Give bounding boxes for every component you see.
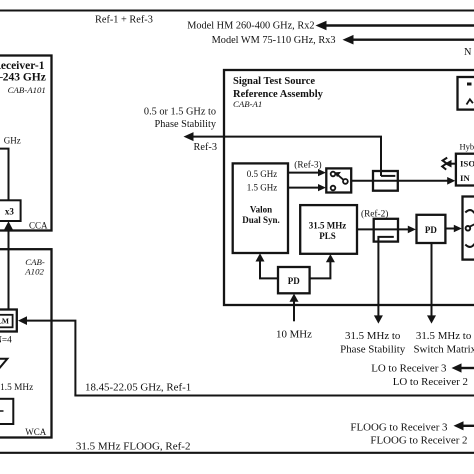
svg-text:31.5 MHz to: 31.5 MHz to <box>416 330 472 342</box>
oscillator box top right (cut off) <box>458 77 474 110</box>
wire coupler tap down to phase stability with arrowhead <box>374 242 383 324</box>
svg-text:PD: PD <box>288 276 300 286</box>
wire switch output through coupler to ISO IN <box>351 177 455 185</box>
svg-text:Hyb: Hyb <box>460 141 474 151</box>
box WCA (CAB-A102) <box>0 249 52 437</box>
svg-text:Signal Test Source: Signal Test Source <box>233 76 315 87</box>
svg-text:Phase Stability: Phase Stability <box>340 344 406 356</box>
amplifier triangle (cut off) <box>0 359 7 370</box>
component PD phase detector lower box <box>278 267 310 293</box>
svg-text:Valon: Valon <box>250 205 272 215</box>
svg-text:N=4: N=4 <box>0 335 12 345</box>
multiplier x3 box <box>0 200 21 221</box>
switch rotary box right edge (cut off) <box>463 197 474 260</box>
coupler box Ref-3 tap <box>373 171 398 191</box>
svg-text:ALM: ALM <box>0 317 9 326</box>
svg-text:Switch Matrix: Switch Matrix <box>414 344 474 356</box>
svg-text:1.5 GHz: 1.5 GHz <box>247 183 278 193</box>
svg-text:CAB-: CAB- <box>25 257 45 267</box>
svg-text:10 MHz: 10 MHz <box>276 328 312 340</box>
svg-text:31.5 MHz: 31.5 MHz <box>0 383 33 393</box>
svg-text:GHz: GHz <box>4 136 21 146</box>
svg-text:LO to Receiver 2: LO to Receiver 2 <box>393 376 468 388</box>
svg-text:0.5 GHz: 0.5 GHz <box>247 169 278 179</box>
wire PD to PLS with arrowhead <box>310 254 335 278</box>
wire top figure border rule <box>0 10 474 12</box>
svg-text:0.5 or 1.5 GHz to: 0.5 or 1.5 GHz to <box>144 106 216 117</box>
svg-text:CCA: CCA <box>29 221 48 231</box>
wire Valon 0.5 GHz output to switch <box>288 169 326 176</box>
svg-text:WCA: WCA <box>25 427 46 437</box>
svg-text:Ref-1 + Ref-3: Ref-1 + Ref-3 <box>95 15 153 26</box>
wire LO to Receiver 3 arrow <box>371 363 474 375</box>
svg-text:x3: x3 <box>5 206 15 216</box>
svg-text:A102: A102 <box>24 267 44 277</box>
svg-text:CAB-A101: CAB-A101 <box>8 85 46 95</box>
termination zigzag arrow on ISO port <box>442 158 456 170</box>
wire arrow Model WM 75-110 GHz Rx3 <box>212 35 474 46</box>
svg-text:Phase Stability: Phase Stability <box>155 119 217 130</box>
component PD phase detector upper box <box>417 215 446 243</box>
wire 18.45-22.05 GHz Ref-1 line <box>74 395 474 397</box>
svg-text:Ref-3: Ref-3 <box>194 142 217 153</box>
box ISO IN hybrid (cut off) <box>456 154 474 186</box>
svg-text:PLS: PLS <box>319 231 336 241</box>
component ALM double box <box>0 310 17 332</box>
svg-text:IN: IN <box>460 173 470 183</box>
svg-text:PD: PD <box>425 225 437 235</box>
wire PLS output through coupler to PD <box>357 226 416 234</box>
wire Ref-1 into ALM with arrowhead <box>18 316 75 395</box>
component small box bottom left (cut off) <box>0 399 13 424</box>
wire FLOOG to Receiver 3 arrow <box>350 421 474 433</box>
coupler box Ref-2 tap <box>374 219 398 242</box>
svg-text:Receiver-1: Receiver-1 <box>0 60 45 72</box>
wire PD down to switch matrix label with arrowhead <box>427 243 436 324</box>
svg-text:ISO: ISO <box>460 158 474 168</box>
svg-text:FLOOG to Receiver 2: FLOOG to Receiver 2 <box>370 434 467 446</box>
svg-text:–243 GHz: –243 GHz <box>0 71 46 83</box>
wire PD to Valon with arrowhead <box>256 253 279 278</box>
oscillator Valon Dual Syn box <box>233 163 288 253</box>
svg-text:FLOOG to Receiver 3: FLOOG to Receiver 3 <box>350 421 448 433</box>
box Receiver-1 CCA (CAB-A101) <box>0 56 52 231</box>
wire Valon 1.5 GHz output to switch <box>288 184 326 191</box>
svg-text:CAB-A1: CAB-A1 <box>233 99 262 109</box>
wire from ALM up into x3 with arrowhead <box>4 221 13 309</box>
svg-text:31.5 MHz to: 31.5 MHz to <box>345 330 401 342</box>
svg-text:(Ref-3): (Ref-3) <box>294 160 321 171</box>
wire from left edge into x3 multiplier <box>0 149 9 201</box>
svg-text:Model HM 260-400 GHz, Rx2: Model HM 260-400 GHz, Rx2 <box>187 21 314 32</box>
svg-text:Dual Syn.: Dual Syn. <box>242 215 280 225</box>
svg-text:31.5 MHz FLOOG, Ref-2: 31.5 MHz FLOOG, Ref-2 <box>76 441 191 453</box>
wire PD output to switch matrix box <box>445 225 462 233</box>
svg-text:N: N <box>464 47 472 58</box>
wire 31.5 MHz FLOOG Ref-2 line <box>0 452 474 454</box>
svg-text:Model WM 75-110 GHz, Rx3: Model WM 75-110 GHz, Rx3 <box>212 35 336 46</box>
svg-text:31.5 MHz: 31.5 MHz <box>309 220 347 230</box>
wire Ref-3 output to phase stability with arrowhead <box>184 132 396 176</box>
svg-text:LO to Receiver 3: LO to Receiver 3 <box>371 363 447 375</box>
svg-text:18.45-22.05 GHz, Ref-1: 18.45-22.05 GHz, Ref-1 <box>85 381 191 393</box>
wire arrow Model HM 260-400 GHz Rx2 <box>187 21 474 32</box>
oscillator 31.5 MHz PLS box <box>300 205 357 254</box>
wire 10 MHz into PD with arrowhead <box>290 294 299 322</box>
switch SPDT box Ref-3 <box>326 168 351 192</box>
box Signal Test Source Reference Assembly (CAB-A1) <box>224 70 474 305</box>
